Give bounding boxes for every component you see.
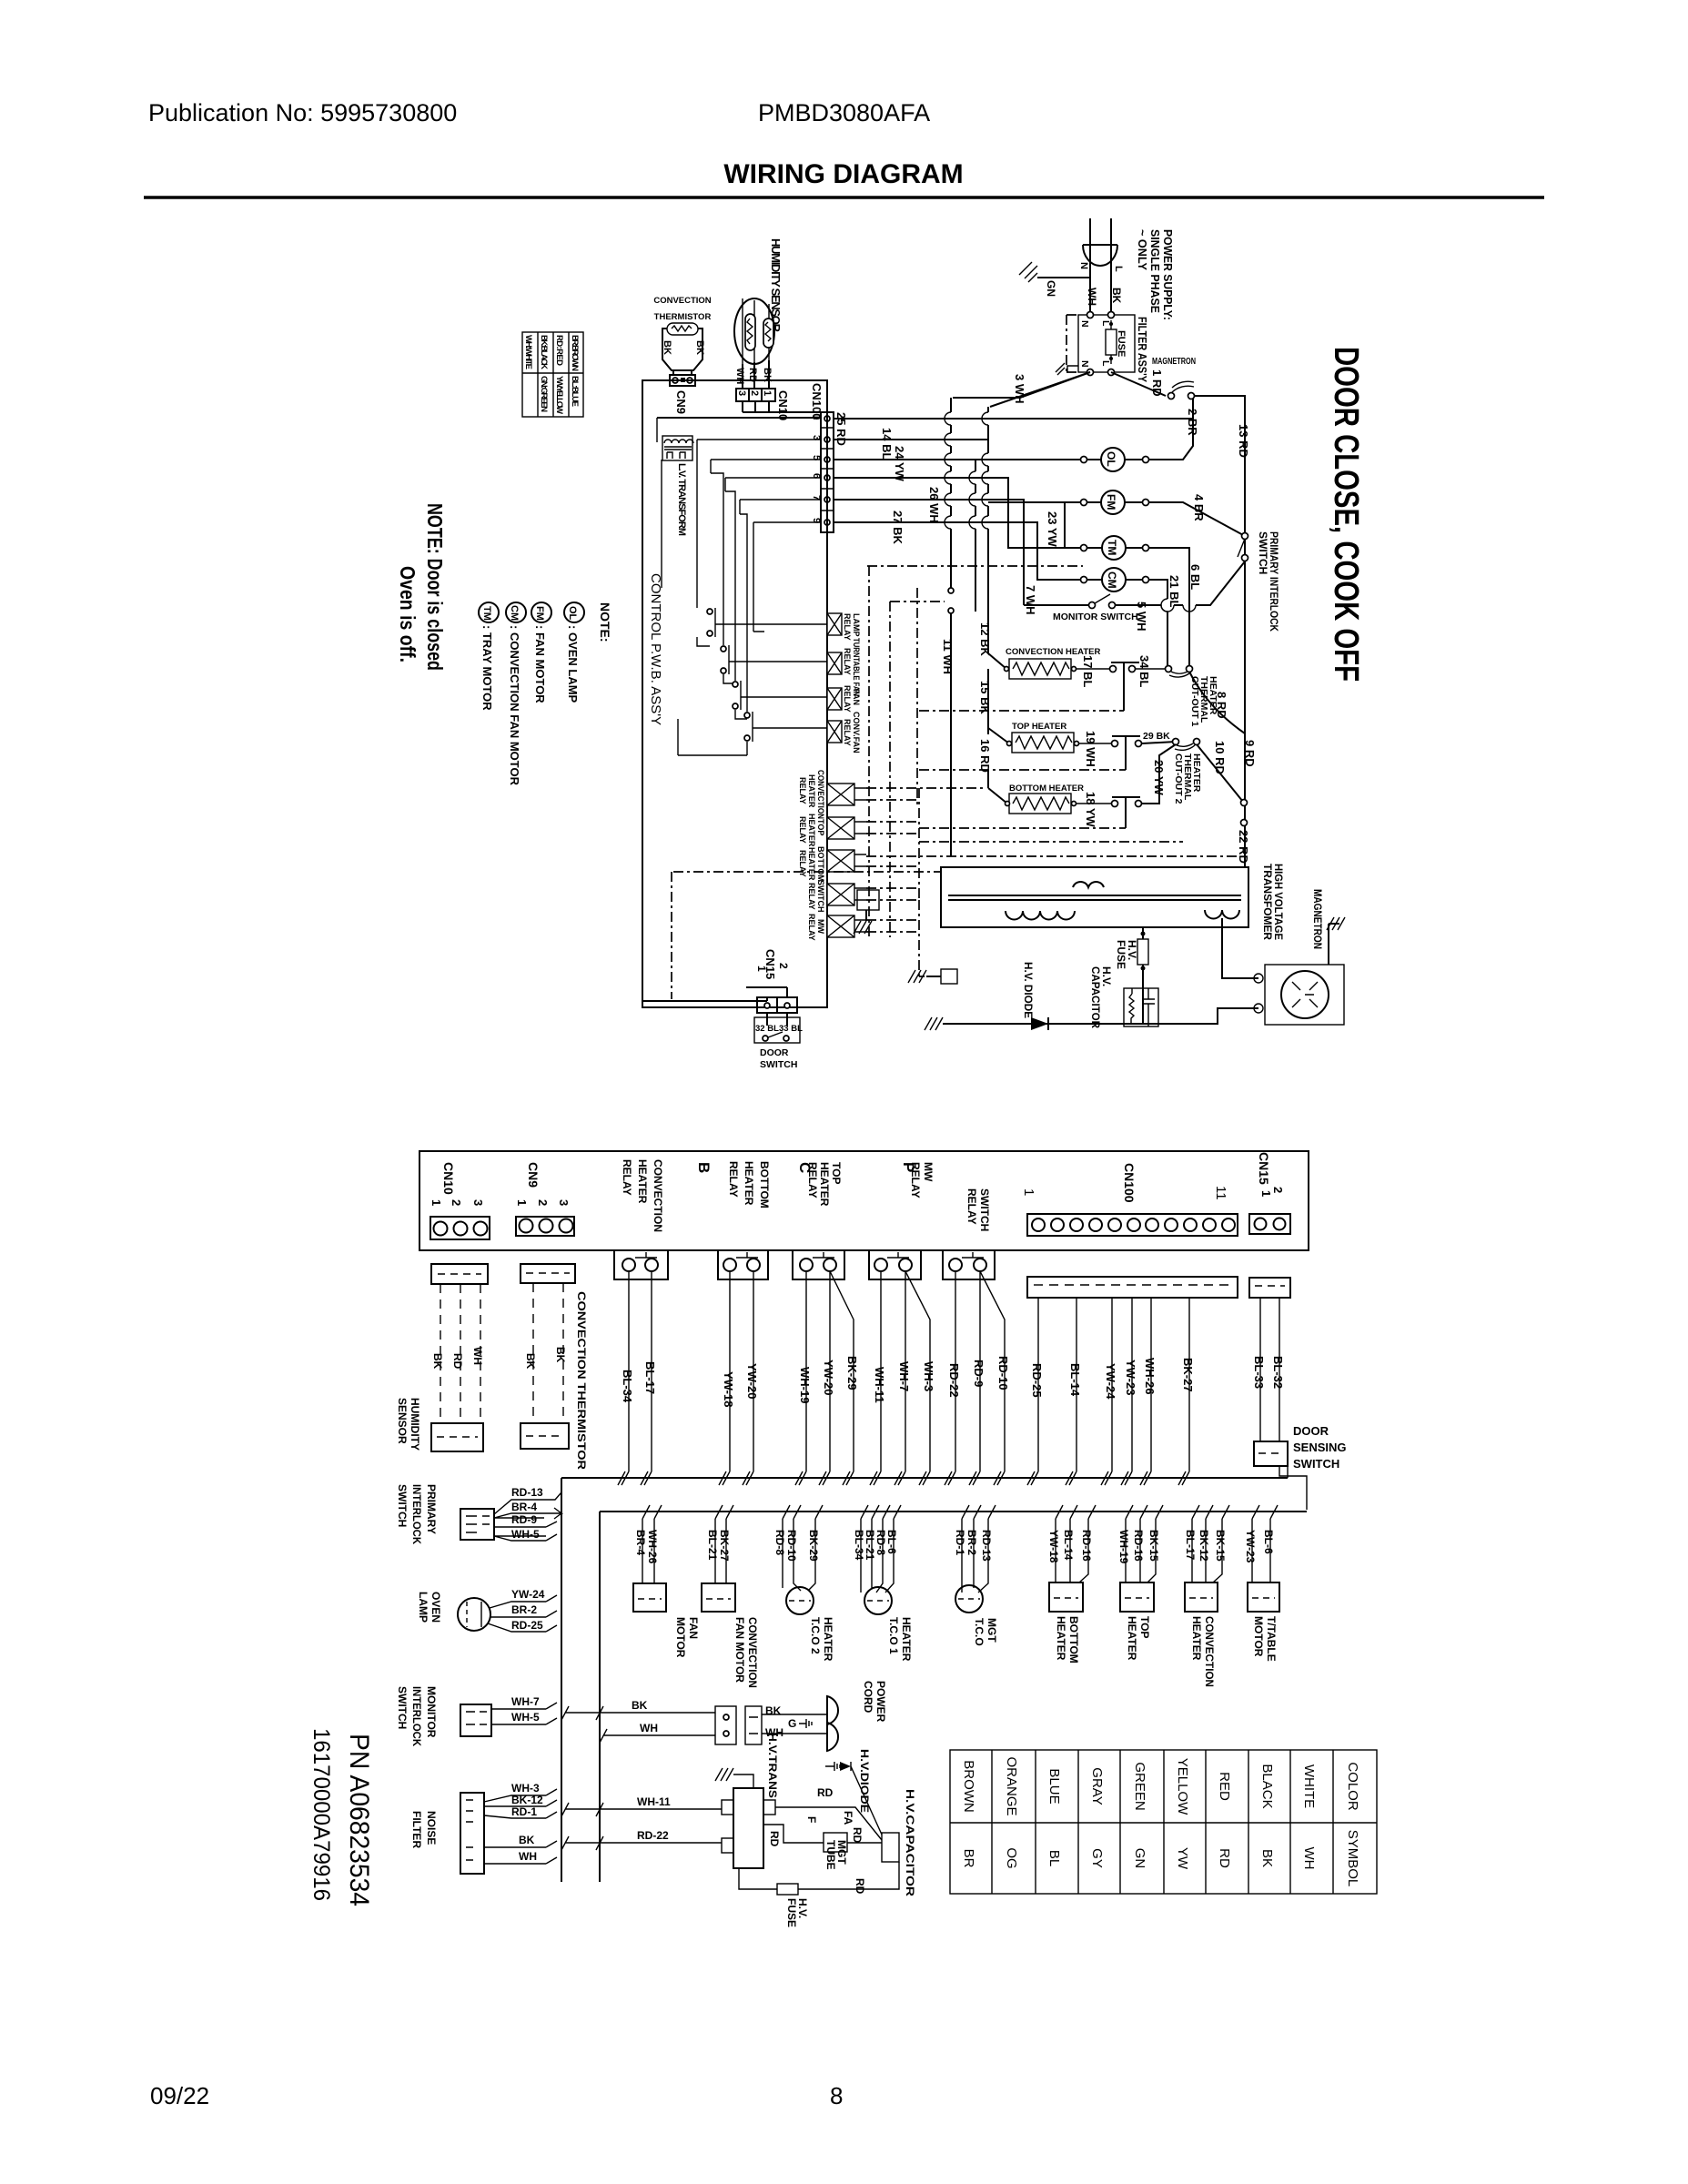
- svg-text:RD: RD: [817, 1786, 834, 1799]
- earth ground for supply: [1037, 277, 1090, 278]
- svg-text:RELAY: RELAY: [798, 850, 807, 877]
- svg-text:RELAY: RELAY: [843, 648, 852, 675]
- svg-text:BK: BK: [632, 1699, 648, 1712]
- turntable motor M3: [1252, 1519, 1270, 1582]
- wire WH-5c: [491, 1718, 557, 1724]
- wire RD-25: [1031, 1298, 1038, 1485]
- control board outline: [642, 380, 827, 1007]
- svg-text:TRANSFOMER: TRANSFOMER: [1261, 864, 1274, 940]
- svg-text:RELAY: RELAY: [806, 1162, 819, 1198]
- svg-text:GN:GREEN: GN:GREEN: [539, 376, 549, 412]
- svg-text:RD-13: RD-13: [511, 1486, 543, 1499]
- svg-text:RD-16: RD-16: [1132, 1530, 1145, 1562]
- svg-text:BOTTOM: BOTTOM: [1067, 1616, 1080, 1663]
- switch relay K8: [827, 884, 854, 905]
- thermal fuse contacts top heater: [1112, 741, 1118, 747]
- svg-text:WH: WH: [1301, 1847, 1317, 1870]
- svg-text:RELAY: RELAY: [909, 1162, 922, 1198]
- svg-text:FM: FM: [534, 606, 545, 621]
- svg-text:ORANGE: ORANGE: [1004, 1756, 1019, 1815]
- bottom heater relay K7: [827, 850, 854, 872]
- svg-text:TOP: TOP: [830, 1162, 843, 1184]
- bus2 crossing ticks and destination stubs: [642, 1505, 1278, 1519]
- svg-text:L: L: [1113, 266, 1124, 272]
- svg-text:LAMP: LAMP: [852, 613, 861, 637]
- svg-text:WH-3: WH-3: [922, 1361, 935, 1391]
- convection fan motor CM: [1102, 568, 1126, 591]
- heater area dash-dot lines: [919, 711, 1183, 842]
- svg-text:1: 1: [430, 1199, 443, 1206]
- svg-text:PMBD3080AFA: PMBD3080AFA: [758, 99, 930, 126]
- vertical bus 11WH with hops: [950, 398, 952, 856]
- svg-text:4 BR: 4 BR: [1192, 494, 1206, 521]
- mw relay contact: [869, 1250, 921, 1279]
- svg-text:SWITCH: SWITCH: [760, 1059, 797, 1070]
- wire WH-3b: [484, 1789, 557, 1802]
- heater thermal cut-out 2: [1173, 739, 1179, 745]
- svg-text:CN9: CN9: [674, 390, 688, 414]
- svg-text:HUMIDITY: HUMIDITY: [409, 1398, 421, 1451]
- wire 22RD: [1241, 800, 1248, 806]
- hv fuse (bottom): [739, 1862, 899, 1889]
- svg-text:9 RD: 9 RD: [1243, 740, 1257, 767]
- svg-text:BL-14: BL-14: [1062, 1530, 1075, 1561]
- svg-text:16170000A79916: 16170000A79916: [308, 1728, 334, 1901]
- svg-text:BL:BLUE: BL:BLUE: [570, 376, 580, 407]
- svg-text:17 BL: 17 BL: [1081, 655, 1095, 687]
- svg-text:25 RD: 25 RD: [834, 412, 848, 446]
- wire BL-33: [1259, 1298, 1261, 1441]
- svg-text:: CONVECTION FAN MOTOR: : CONVECTION FAN MOTOR: [508, 625, 521, 786]
- oven lamp OL: [1101, 448, 1125, 471]
- wire 13RD: [1195, 396, 1245, 824]
- svg-text:09/22: 09/22: [150, 2082, 209, 2109]
- svg-text:BK: BK: [765, 1704, 782, 1717]
- svg-text:H.V. DIODE: H.V. DIODE: [1022, 962, 1035, 1018]
- convection thermistor connector block: [521, 1264, 575, 1283]
- interlock relay contact (1RD switch): [1168, 393, 1175, 399]
- svg-text:BL-34: BL-34: [853, 1530, 865, 1561]
- svg-text:MOTOR: MOTOR: [674, 1617, 687, 1658]
- wire RD-9: [973, 1271, 980, 1485]
- svg-text:B: B: [695, 1162, 713, 1173]
- svg-text:RD-9: RD-9: [511, 1513, 537, 1526]
- power supply plug: [1083, 218, 1117, 245]
- svg-text:BK:BLACK: BK:BLACK: [539, 335, 549, 369]
- humidity sensor body: [431, 1423, 483, 1451]
- wire 20YW: [1142, 744, 1176, 804]
- wire WH to power cord: [600, 1729, 715, 1743]
- svg-text:BK-12: BK-12: [511, 1794, 543, 1806]
- wire BL-14: [1069, 1298, 1076, 1485]
- svg-text:F: F: [805, 1816, 818, 1823]
- convection thermistor body box: [662, 329, 702, 370]
- svg-text:1: 1: [1259, 1190, 1273, 1197]
- svg-text:G: G: [788, 1717, 796, 1730]
- svg-text:WH: WH: [640, 1722, 658, 1734]
- svg-text:T.C.O 1: T.C.O 1: [887, 1617, 900, 1654]
- convection heater (bottom view): [1192, 1519, 1222, 1582]
- wire YW-18: [723, 1271, 730, 1485]
- svg-text:RD-1: RD-1: [511, 1805, 537, 1818]
- svg-text:OL: OL: [1105, 451, 1117, 467]
- svg-text:2: 2: [450, 1199, 463, 1206]
- svg-text:6 BL: 6 BL: [1188, 564, 1202, 590]
- svg-text:BLACK: BLACK: [1259, 1764, 1275, 1808]
- wire 27BK run: [834, 522, 1080, 580]
- svg-text:DOOR: DOOR: [760, 1047, 789, 1058]
- bottom heater relay contact: [718, 1250, 768, 1279]
- svg-text:T.C.O 2: T.C.O 2: [809, 1617, 822, 1654]
- wire capacitor to magnetron: [1143, 918, 1258, 1024]
- svg-text:14 BL: 14 BL: [880, 428, 894, 460]
- main bus 2: [600, 1512, 1307, 1882]
- svg-text:YW-23: YW-23: [1124, 1360, 1137, 1395]
- svg-text:BK-29: BK-29: [807, 1530, 820, 1562]
- svg-text:RELAY: RELAY: [727, 1161, 740, 1198]
- svg-text:Oven is off.: Oven is off.: [396, 566, 419, 662]
- svg-text:BK-15: BK-15: [1214, 1530, 1227, 1562]
- svg-text:WH-5: WH-5: [511, 1528, 540, 1541]
- svg-text:34 BL: 34 BL: [1137, 655, 1151, 687]
- svg-text:RELAY: RELAY: [807, 883, 816, 910]
- svg-text:24 YW: 24 YW: [893, 446, 906, 482]
- svg-text:3 WH: 3 WH: [1013, 374, 1026, 404]
- svg-text:GY: GY: [1089, 1848, 1105, 1868]
- svg-text:FILTER ASS'Y: FILTER ASS'Y: [1136, 317, 1149, 382]
- svg-text:TOP HEATER: TOP HEATER: [1012, 722, 1066, 732]
- svg-text:BK-29: BK-29: [845, 1356, 859, 1390]
- wire RD-25b: [488, 1623, 557, 1632]
- hv capacitor (bottom): [882, 1833, 899, 1862]
- svg-text:1 RD: 1 RD: [1150, 369, 1164, 397]
- top heater (bottom view): [1126, 1519, 1156, 1582]
- svg-text:SWITCH: SWITCH: [396, 1686, 409, 1729]
- hv fuse F2: [1142, 927, 1144, 988]
- svg-text:RELAY: RELAY: [798, 816, 807, 844]
- wire WH-11b: [561, 1803, 722, 1816]
- svg-text:BROWN: BROWN: [961, 1760, 976, 1813]
- convection thermistor body: [521, 1423, 569, 1449]
- svg-text:WH: WH: [1086, 288, 1098, 306]
- svg-text:DOOR: DOOR: [1293, 1424, 1329, 1438]
- svg-text:RELAY: RELAY: [843, 613, 852, 641]
- ground stub near transformer: [857, 890, 879, 910]
- svg-text:WH: WH: [734, 368, 745, 384]
- interior feed line: [657, 417, 821, 419]
- svg-text:WH: WH: [519, 1850, 537, 1863]
- ground for diode line: [925, 1017, 943, 1030]
- svg-text:HEATER: HEATER: [1055, 1616, 1067, 1661]
- svg-text:BK: BK: [554, 1347, 567, 1363]
- wire BL-34: [622, 1271, 629, 1485]
- svg-text:RD:RED: RD:RED: [554, 335, 564, 366]
- thermal fuse contacts bottom heater: [1112, 801, 1118, 807]
- wire 4BR to primary interlock: [1149, 502, 1245, 536]
- wire CN9 to board edge: [643, 379, 821, 381]
- svg-text:1: 1: [762, 390, 773, 396]
- svg-text:3: 3: [557, 1199, 571, 1206]
- svg-text:RD: RD: [1217, 1848, 1232, 1868]
- svg-text:11: 11: [1213, 1186, 1228, 1200]
- wire 6BL: [1149, 548, 1189, 665]
- wire 14BL run: [834, 439, 988, 440]
- svg-text:FAN MOTOR: FAN MOTOR: [733, 1617, 746, 1683]
- svg-text:MAGNETRON: MAGNETRON: [1152, 356, 1196, 367]
- svg-text:CN100: CN100: [1122, 1163, 1137, 1203]
- svg-text:SWITCH: SWITCH: [1257, 531, 1269, 574]
- svg-text:POWER: POWER: [874, 1681, 887, 1723]
- svg-text:: TRAY MOTOR: : TRAY MOTOR: [480, 625, 494, 711]
- svg-text:3: 3: [736, 390, 747, 396]
- svg-text:21 BL: 21 BL: [1167, 575, 1181, 607]
- svg-text:BK: BK: [524, 1353, 537, 1370]
- svg-text:SENSING: SENSING: [1293, 1441, 1347, 1454]
- svg-text:19 WH: 19 WH: [1084, 731, 1097, 767]
- svg-text:GN: GN: [1132, 1848, 1147, 1869]
- top heater relay K6: [827, 817, 854, 839]
- wire WH: [484, 1857, 557, 1864]
- svg-text:RD-8: RD-8: [773, 1530, 786, 1555]
- svg-text:MW: MW: [816, 919, 825, 934]
- svg-text:WH-7: WH-7: [897, 1361, 911, 1391]
- svg-text:BL-17: BL-17: [1184, 1530, 1197, 1561]
- svg-text:MW: MW: [922, 1162, 935, 1182]
- svg-text:H.V.DIODE: H.V.DIODE: [858, 1749, 871, 1813]
- svg-text:RD-9: RD-9: [972, 1360, 986, 1387]
- third wavy vertical: [975, 460, 976, 612]
- conv fan relay K4: [827, 721, 842, 743]
- wire CN15 feed: [643, 987, 787, 1001]
- wire RD-10: [980, 1271, 1005, 1485]
- svg-text:RED: RED: [1217, 1772, 1232, 1801]
- svg-text:RD-1: RD-1: [954, 1530, 966, 1555]
- svg-text:YW: YW: [1175, 1847, 1190, 1870]
- svg-text:BK-15: BK-15: [1147, 1530, 1160, 1562]
- svg-text:MONITOR SWITCH: MONITOR SWITCH: [1053, 612, 1138, 622]
- svg-text:HEATER: HEATER: [807, 774, 816, 808]
- wire L N to filter: [1090, 245, 1111, 315]
- lamp relay feed from CN100: [826, 532, 828, 612]
- svg-text:FILTER: FILTER: [410, 1811, 423, 1848]
- svg-text:INTERLOCK: INTERLOCK: [410, 1686, 423, 1746]
- svg-text:T.C.O: T.C.O: [973, 1618, 986, 1646]
- svg-text:BL-6: BL-6: [1262, 1530, 1275, 1554]
- svg-text:RD-25: RD-25: [1030, 1363, 1044, 1398]
- svg-text:HEATER: HEATER: [818, 1162, 831, 1207]
- svg-text:BR-2: BR-2: [511, 1603, 537, 1616]
- svg-text:CONVECTION: CONVECTION: [816, 770, 825, 819]
- humidity sensor B1 symbol: [734, 298, 774, 364]
- wire WH-26: [1144, 1298, 1151, 1485]
- svg-text:TURNTABLE FAN: TURNTABLE FAN: [852, 638, 861, 696]
- monitor switch S2: [1089, 602, 1096, 609]
- svg-text:YW-20: YW-20: [822, 1360, 835, 1395]
- svg-text:CM: CM: [1106, 571, 1118, 589]
- heater TCO1: [861, 1519, 894, 1592]
- svg-text:OVEN: OVEN: [430, 1592, 442, 1623]
- svg-text:FAN: FAN: [852, 689, 861, 705]
- heater thermal cut-out 1: [1166, 666, 1172, 672]
- svg-text:BR-4: BR-4: [511, 1501, 537, 1513]
- svg-text:BOTTOM: BOTTOM: [816, 846, 825, 882]
- svg-text:MGT: MGT: [986, 1618, 998, 1643]
- svg-text:TM: TM: [1106, 540, 1118, 555]
- bus1 crossing ticks: [618, 1471, 1186, 1485]
- wire BK-27: [1182, 1298, 1189, 1485]
- svg-text:CONTROL P.W.B. ASS'Y: CONTROL P.W.B. ASS'Y: [648, 573, 663, 725]
- svg-text:SWITCH: SWITCH: [978, 1188, 991, 1231]
- svg-text:N: N: [1078, 262, 1089, 269]
- svg-text:CONVECTION: CONVECTION: [746, 1617, 759, 1688]
- svg-text:WH-3: WH-3: [511, 1782, 540, 1795]
- svg-text:BL-21: BL-21: [706, 1530, 719, 1561]
- svg-text:CONVECTION THERMISTOR: CONVECTION THERMISTOR: [575, 1291, 588, 1470]
- svg-text:HEATER: HEATER: [743, 1161, 755, 1206]
- door switch S1: [767, 1013, 787, 1026]
- wire 5WH monitor to interlock: [1116, 561, 1245, 605]
- primary interlock switch contacts: [1242, 533, 1248, 540]
- svg-text:WHITE: WHITE: [1301, 1764, 1317, 1808]
- svg-text:13 RD: 13 RD: [1237, 424, 1250, 458]
- svg-text:BL-17: BL-17: [643, 1361, 657, 1394]
- monitor dash-dot loop: [867, 566, 1083, 937]
- wire 23YW: [1064, 502, 1066, 548]
- svg-text:2: 2: [777, 963, 790, 969]
- svg-text:GRAY: GRAY: [1089, 1767, 1105, 1805]
- svg-text:RELAY: RELAY: [965, 1188, 978, 1225]
- wire BK-29: [830, 1271, 854, 1485]
- svg-text:WH-11: WH-11: [873, 1367, 886, 1403]
- wire BK-12: [484, 1800, 557, 1806]
- tray motor TM: [1102, 536, 1126, 560]
- wire YW-20: [746, 1271, 753, 1485]
- control board outline (bottom view): [419, 1151, 1309, 1250]
- svg-text:23 YW: 23 YW: [1046, 511, 1059, 548]
- svg-text:RD-16: RD-16: [1080, 1530, 1093, 1562]
- svg-text:SWITCH: SWITCH: [816, 880, 825, 913]
- wire YW-24: [1105, 1298, 1112, 1485]
- svg-text:RD-10: RD-10: [996, 1356, 1010, 1390]
- svg-text:FUSE: FUSE: [1115, 940, 1127, 969]
- svg-text:RELAY: RELAY: [843, 685, 852, 713]
- svg-text:FAN: FAN: [687, 1617, 700, 1639]
- wire BK: [484, 1841, 557, 1847]
- svg-text:RD: RD: [768, 1831, 781, 1847]
- svg-text:RD-8: RD-8: [874, 1530, 887, 1555]
- power cord connector halves: [715, 1706, 736, 1744]
- svg-text:22 RD: 22 RD: [1237, 830, 1250, 864]
- svg-text:16 RD: 16 RD: [978, 739, 992, 773]
- wire FM feed: [988, 501, 1080, 503]
- svg-text:INTERLOCK: INTERLOCK: [410, 1484, 423, 1544]
- svg-text:HEATER: HEATER: [822, 1617, 834, 1662]
- svg-text:: FAN MOTOR: : FAN MOTOR: [533, 625, 547, 703]
- svg-text:CONVECTION: CONVECTION: [652, 1159, 664, 1232]
- svg-text:YW:YELLOW: YW:YELLOW: [554, 376, 564, 414]
- svg-text:RELAY: RELAY: [807, 914, 816, 941]
- svg-text:: OVEN LAMP: : OVEN LAMP: [566, 625, 580, 703]
- fuse F1: [1110, 320, 1112, 364]
- svg-text:THERMISTOR: THERMISTOR: [654, 312, 712, 322]
- svg-text:BL: BL: [1046, 1850, 1062, 1866]
- svg-text:1: 1: [755, 966, 768, 972]
- dash-dot feed to transformer: [672, 872, 941, 999]
- svg-text:OL: OL: [567, 606, 578, 621]
- svg-text:27 BK: 27 BK: [891, 511, 905, 544]
- svg-text:SINGLE PHASE: SINGLE PHASE: [1148, 229, 1162, 313]
- svg-text:1: 1: [1021, 1188, 1036, 1196]
- svg-text:26 WH: 26 WH: [927, 487, 941, 523]
- L.V. transformer T2: [662, 436, 693, 460]
- wire 26WH run: [834, 500, 1024, 605]
- svg-text:SENSOR: SENSOR: [396, 1398, 409, 1444]
- svg-text:BL-14: BL-14: [1068, 1363, 1082, 1397]
- wire RD-9b: [494, 1522, 557, 1527]
- magnetron V1: [1265, 965, 1344, 1025]
- svg-text:TOP: TOP: [816, 819, 825, 835]
- svg-text:8: 8: [830, 2082, 843, 2109]
- svg-text:YW-23: YW-23: [1244, 1530, 1257, 1563]
- svg-text:TM: TM: [481, 606, 492, 621]
- svg-text:DOOR CLOSE, COOK OFF: DOOR CLOSE, COOK OFF: [1327, 347, 1365, 682]
- fan motor M1: [642, 1519, 654, 1583]
- CN100 harness block: [1027, 1277, 1238, 1298]
- svg-text:HEATER: HEATER: [900, 1617, 913, 1662]
- svg-text:LAMP: LAMP: [417, 1592, 430, 1623]
- wire BR-4: [494, 1508, 561, 1519]
- connector CN10 (top): [736, 389, 775, 401]
- svg-text:HEATER: HEATER: [1190, 1616, 1203, 1661]
- wire WH-3: [905, 1271, 930, 1485]
- svg-text:L.V. TRANSFORM: L.V. TRANSFORM: [676, 463, 687, 536]
- switch Q4: [678, 500, 821, 755]
- dash-dot corner: [890, 601, 945, 602]
- fan relay K3: [827, 688, 842, 710]
- title rule: [144, 196, 1544, 199]
- svg-text:L: L: [1100, 360, 1111, 367]
- svg-text:CUT-OUT 2: CUT-OUT 2: [1173, 753, 1184, 804]
- wire WH-7b: [491, 1703, 557, 1709]
- switch relay contact: [943, 1250, 995, 1279]
- svg-text:POWER SUPPLY:: POWER SUPPLY:: [1161, 229, 1175, 320]
- humidity sensor leads: [743, 360, 769, 389]
- svg-text:OG: OG: [1004, 1847, 1019, 1868]
- color table: [950, 1750, 1377, 1894]
- svg-text:BK: BK: [1110, 288, 1123, 304]
- thermal fuse contacts conv heater: [1110, 666, 1117, 672]
- wire RD-22b: [561, 1836, 722, 1850]
- convection fan motor M2: [715, 1519, 726, 1583]
- wire YW-23: [1125, 1298, 1132, 1485]
- svg-text:H.V.CAPACITOR: H.V.CAPACITOR: [904, 1789, 916, 1896]
- svg-text:RD-10: RD-10: [785, 1530, 798, 1562]
- svg-text:FM: FM: [1105, 494, 1117, 510]
- wire 25RD run: [834, 418, 1193, 420]
- svg-text:YW-20: YW-20: [745, 1363, 759, 1399]
- svg-text:BR: BR: [961, 1849, 976, 1868]
- wire BR-2: [490, 1611, 557, 1617]
- svg-text:BL-6: BL-6: [885, 1530, 898, 1554]
- high voltage transformer T1: [941, 867, 1248, 927]
- MGT TCO: [962, 1519, 988, 1592]
- svg-text:N: N: [1079, 360, 1090, 368]
- svg-text:CM: CM: [509, 605, 520, 621]
- top heater relay contact: [793, 1250, 844, 1279]
- svg-text:BOTTOM HEATER: BOTTOM HEATER: [1009, 784, 1084, 794]
- svg-text:YW-24: YW-24: [1104, 1363, 1117, 1400]
- svg-text:BK: BK: [431, 1353, 444, 1370]
